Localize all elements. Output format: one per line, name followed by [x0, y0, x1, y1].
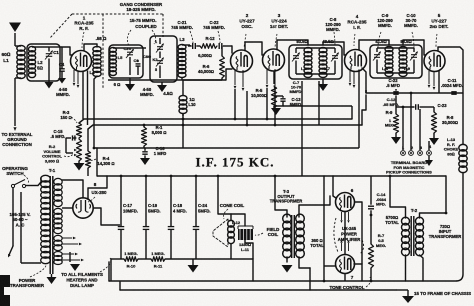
- wire antenna to L1: [15, 45, 21, 47]
- paper grain: [0, 0, 1, 1]
- shield box IF transformer 1: [289, 45, 342, 79]
- T-1 filament winding 1: [54, 235, 62, 241]
- capacitor C-11: [451, 91, 456, 93]
- tube 1 heater leads: [73, 70, 75, 82]
- antenna: [9, 23, 21, 33]
- potentiometer R-2 volume control: [77, 139, 82, 161]
- wire tube3 plate to IF1: [277, 40, 308, 50]
- capacitor C-14: [370, 176, 372, 205]
- ground under R-8: [433, 133, 435, 138]
- tube V5 UY-227 2nd DET: [424, 51, 445, 72]
- capacitor C-16: [144, 148, 146, 151]
- wire L-9 to tube5 grid: [403, 40, 426, 55]
- tube V1 RCA-235 R.F.: [71, 51, 92, 72]
- coil L3: [178, 45, 186, 50]
- capacitor C6: [137, 60, 139, 62]
- coil L2: [28, 46, 35, 51]
- tube 1 cathode leads down to buses: [82, 71, 84, 119]
- ground below box 3: [161, 82, 163, 85]
- resistor R-11: [151, 257, 165, 262]
- T-2 wires: [390, 176, 406, 218]
- bus B+ upper: [79, 119, 352, 123]
- T-1 primary winding: [41, 175, 51, 182]
- wire field to bus: [218, 176, 231, 214]
- AC wires: [26, 185, 39, 187]
- wire L2 top to grid of tube 1: [32, 46, 49, 48]
- ground on divider bus: [192, 259, 194, 265]
- capacitor C-21 in series: [188, 45, 192, 47]
- wire plate loop: [323, 176, 325, 281]
- tube4 cathode down: [358, 70, 360, 149]
- capacitor C-22 series: [218, 43, 220, 49]
- IF section cathode wires: [301, 81, 303, 176]
- coil L-7: [319, 48, 327, 53]
- resistor R-10: [124, 257, 138, 262]
- tube V7 UX-245: [336, 255, 355, 274]
- tube3 leads to bus: [266, 88, 268, 119]
- wire L10 to bus: [182, 113, 184, 148]
- filter cap C-19: [145, 176, 147, 227]
- tube V4 RCA-235 I.F.: [345, 50, 367, 72]
- resistor R-6: [221, 46, 223, 56]
- rectifier output wire: [88, 176, 107, 199]
- heater arrows between tubes: [341, 212, 343, 220]
- coil L10: [179, 95, 187, 100]
- coil L-9: [399, 47, 407, 52]
- wire tube2 to L10: [226, 69, 232, 80]
- terminal board posts: [402, 107, 404, 150]
- tube 1 plate wire to L4: [84, 44, 97, 51]
- variable capacitor C-10: [413, 48, 415, 52]
- resistor R-4: [87, 129, 89, 151]
- tube 5 heater leads: [428, 71, 430, 84]
- coil L1: [17, 45, 25, 51]
- wire into tube 2 grid: [231, 46, 233, 53]
- resistor R-8: [433, 107, 435, 112]
- resistor R-1: [143, 125, 145, 127]
- shield box 1: [27, 44, 60, 81]
- RF choke L-13: [459, 144, 467, 151]
- tube 5 cathode lead: [438, 70, 440, 93]
- wire top right horizontal: [366, 92, 463, 94]
- field coil wires: [231, 214, 245, 226]
- T-3 secondary: [296, 214, 305, 223]
- ground below box 2: [129, 78, 131, 84]
- tube V6 UX-245: [336, 193, 355, 212]
- resistor R-9: [395, 107, 397, 114]
- coil L4: [93, 47, 101, 52]
- wires IF2: [377, 47, 414, 49]
- wire bus to lower right: [445, 176, 447, 213]
- wire T-3 to tubes: [309, 268, 311, 290]
- T-3 primary: [283, 214, 292, 223]
- wire across box2 top: [113, 47, 138, 49]
- filter cap C-17: [120, 176, 122, 227]
- T-1 secondary mid: [54, 208, 62, 214]
- capacitor C-8 trimmer: [334, 48, 336, 53]
- cone (dashed): [213, 219, 228, 247]
- capacitor C-15: [73, 137, 76, 139]
- wire tube4 plate to IF2: [359, 40, 389, 50]
- T-1 filament winding 2: [54, 252, 62, 257]
- bus second: [88, 125, 362, 129]
- capacitor C-23: [415, 104, 417, 110]
- wire L4 bottom down to bus: [94, 76, 97, 148]
- rectifier plate wires: [62, 180, 83, 198]
- tube 4 heater leads: [349, 71, 351, 82]
- shield box 2: [109, 45, 143, 78]
- resistor R-3: [77, 123, 82, 138]
- ground filament: [69, 252, 71, 262]
- tube 3 heater leads: [266, 69, 268, 84]
- ground at T-1 core bottom: [51, 274, 53, 277]
- capacitor C-22 bypass: [395, 89, 397, 91]
- rectifier tube V8 UX-280: [73, 198, 93, 218]
- coil L-6: [304, 48, 312, 53]
- tube V3 UY-224 1st DET: [263, 49, 285, 71]
- tube V7 wires: [344, 212, 346, 255]
- ground under IF box1: [322, 79, 324, 84]
- ground under R-2: [78, 161, 80, 163]
- variable capacitor C-7: [295, 48, 297, 53]
- ground below C1: [48, 75, 50, 82]
- capacitor C-13 bypass: [273, 106, 275, 108]
- left hook of buses: [110, 259, 112, 280]
- variable capacitor C1: [48, 47, 50, 52]
- bottom frame ground: [396, 289, 408, 291]
- variable capacitor C3: [129, 48, 131, 50]
- field coil L-11 block: [238, 229, 253, 240]
- filament wires with arrows: [62, 237, 72, 239]
- switch: [11, 184, 14, 187]
- resistor R-5: [273, 71, 275, 84]
- gang condenser dashed bus: [72, 13, 163, 15]
- T-2 primary: [402, 217, 410, 225]
- resistor R-7: [370, 215, 372, 244]
- filter cap C-24: [195, 176, 197, 227]
- resistor R-12: [200, 44, 217, 49]
- page fragment black block: [0, 275, 10, 306]
- L-13 wire join: [445, 212, 448, 215]
- wire L1 to ground lead: [15, 77, 21, 79]
- tube V2 UY-227 OSC: [231, 50, 253, 72]
- variable capacitor C-9: [376, 48, 378, 52]
- wire L3 top to C-21: [182, 44, 190, 46]
- T-3 wires: [275, 176, 287, 217]
- tube2 cathode to bus: [234, 89, 236, 119]
- wires volume network: [65, 138, 67, 153]
- shield box IF transformer 2: [370, 45, 422, 78]
- wire tube2 plate to tube3: [245, 42, 264, 55]
- variable capacitor C2 upper: [159, 38, 161, 44]
- tube V6 wires: [333, 196, 336, 198]
- tube 2 heater leads: [234, 70, 236, 85]
- bus with R-10 R-11: [111, 258, 124, 260]
- ground under post 4: [428, 156, 430, 160]
- wire R-6 bottom: [221, 78, 223, 80]
- shield box 3 oscillator: [150, 36, 177, 82]
- junction dots: [93, 147, 96, 150]
- coil L5: [110, 48, 117, 53]
- variable capacitor C2 lower: [157, 60, 163, 62]
- coil L-8: [385, 47, 393, 52]
- wire L-7 to tube4 grid: [323, 42, 346, 55]
- T-1 secondary HV: [54, 178, 62, 185]
- ground under R-5: [271, 108, 281, 115]
- bus third: [94, 147, 359, 149]
- trimmer capacitor C4: [61, 47, 63, 69]
- bus bottom of IF box: [97, 175, 446, 177]
- tube5 plate down to detector output line: [438, 47, 463, 93]
- wire into pickup network: [395, 95, 397, 107]
- cone coil L-12: [228, 220, 235, 227]
- filter cap C-18: [170, 176, 172, 227]
- T-2 secondary: [416, 217, 424, 225]
- ground under R-9: [395, 133, 397, 137]
- bottom bus 2: [120, 289, 396, 291]
- bottom bus 1: [109, 280, 456, 282]
- wire right edge down: [462, 93, 464, 145]
- wires in IF box: [296, 47, 335, 49]
